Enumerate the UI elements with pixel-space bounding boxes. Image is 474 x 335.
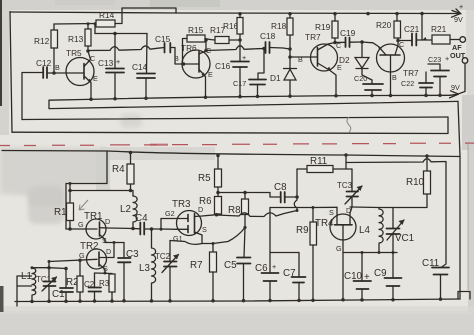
capacitor C23 <box>428 54 449 95</box>
wire C11 feed line with hop at R10 <box>346 159 446 268</box>
node collector TR5 <box>86 49 90 53</box>
wire drain net wavy <box>217 211 298 217</box>
node R15 tap <box>182 62 186 66</box>
svg-text:R16: R16 <box>223 21 239 31</box>
wire R5/R6 node to C8 <box>218 193 281 198</box>
svg-text:C5: C5 <box>224 260 237 271</box>
capacitor C20 <box>354 74 383 96</box>
capacitor C1 <box>52 267 73 303</box>
svg-text:D: D <box>346 206 351 215</box>
wire TR5 collector to C15 with hop-overs <box>88 46 165 51</box>
resistor R11 <box>297 156 352 173</box>
svg-text:R19: R19 <box>315 22 331 32</box>
capacitor C18 <box>260 31 290 53</box>
svg-text:R14: R14 <box>99 10 115 20</box>
resistor R12 <box>34 24 58 73</box>
svg-text:L4: L4 <box>359 225 370 236</box>
resistor R14 <box>96 10 122 27</box>
capacitor C10 <box>344 253 371 302</box>
resistor R8 <box>228 193 249 258</box>
wire top-sheet bottom border <box>12 117 448 134</box>
svg-text:D2: D2 <box>339 55 350 65</box>
svg-text:S: S <box>202 225 207 234</box>
svg-text:C19: C19 <box>340 28 356 38</box>
svg-text:R20: R20 <box>376 20 392 30</box>
svg-text:R3: R3 <box>99 279 110 288</box>
wire drain node to L4 VC1 R10 <box>352 206 399 209</box>
resistor R4 <box>112 151 134 193</box>
svg-text:TR5: TR5 <box>66 48 82 58</box>
resistor R10 <box>399 154 431 207</box>
svg-text:R8: R8 <box>228 205 241 216</box>
svg-text:E: E <box>93 74 98 83</box>
transistor TR6 <box>174 43 213 97</box>
red fold line <box>0 143 474 145</box>
pencil arrow mark <box>79 200 88 210</box>
svg-text:C20: C20 <box>354 74 367 83</box>
wire rail tap for R11 <box>345 155 347 169</box>
wire drain supply node <box>70 191 133 197</box>
resistor R5 <box>198 154 222 193</box>
svg-text:E: E <box>208 70 213 79</box>
capacitor C4 <box>133 213 177 235</box>
trimmer TC2 <box>155 241 179 303</box>
svg-text:C16: C16 <box>215 61 231 71</box>
svg-text:L3: L3 <box>139 263 150 274</box>
svg-text:D: D <box>106 247 111 256</box>
resistor R21 <box>431 24 460 44</box>
svg-text:R21: R21 <box>431 24 447 34</box>
wire right-side 0V drop <box>458 101 460 299</box>
svg-text:G: G <box>336 244 342 253</box>
svg-text:B: B <box>298 55 303 64</box>
resistor R13 <box>68 29 91 51</box>
transistor TR7 second <box>362 38 419 96</box>
wire supply detour over R14 <box>122 8 176 13</box>
svg-text:R13: R13 <box>68 34 84 44</box>
svg-text:TR7: TR7 <box>403 68 419 78</box>
wire bottom-sheet supply rail <box>2 151 460 157</box>
wire 0V line from C12 across sheet <box>22 117 448 120</box>
resistor R19 <box>315 12 338 44</box>
capacitor C9 <box>374 253 402 302</box>
diode D2 <box>339 42 372 80</box>
trimmer TC1 <box>36 266 57 303</box>
svg-text:R4: R4 <box>112 164 125 175</box>
capacitor C14 <box>132 34 155 99</box>
capacitor C22 <box>401 72 433 95</box>
svg-text:C18: C18 <box>260 31 276 41</box>
transistor TR5 <box>55 48 98 99</box>
transistor TR1 <box>78 211 133 245</box>
svg-text:G: G <box>79 251 85 260</box>
resistor R20 <box>376 12 401 38</box>
diode D1 <box>270 57 297 96</box>
capacitor C8 <box>274 182 297 203</box>
bus junction dots <box>89 12 442 101</box>
capacitor C21 <box>396 24 432 46</box>
transistor TR4 <box>315 206 356 302</box>
svg-text:R6: R6 <box>199 196 212 207</box>
wire R11 drop to source net with hop <box>294 169 297 211</box>
node L3 tap <box>150 227 154 231</box>
aerial lead and coupling bracket <box>17 276 32 306</box>
wire G2 drop <box>161 219 177 230</box>
capacitor C13 <box>98 34 124 99</box>
inductor L2 <box>120 196 137 229</box>
svg-text:TC2: TC2 <box>155 252 171 261</box>
resistor R17 <box>210 25 240 44</box>
wire antenna feed step <box>66 151 107 229</box>
svg-text:+: + <box>459 2 463 11</box>
resistor R6 <box>199 191 222 217</box>
wire gate TR2 feed <box>49 259 97 267</box>
inductor L3 <box>139 229 156 303</box>
svg-text:TR3: TR3 <box>172 199 191 210</box>
wire C13/C14 feed <box>95 33 147 35</box>
AF OUT terminals <box>450 37 468 94</box>
node base TR5 <box>52 71 56 75</box>
capacitor C5 <box>224 258 251 303</box>
svg-text:R7: R7 <box>190 260 203 271</box>
svg-text:C13: C13 <box>98 58 114 68</box>
wire supply drop to C21/R21 <box>421 14 423 41</box>
wire C6/C7 tie <box>270 208 299 253</box>
wire base TR7 <box>290 56 318 58</box>
resistor R9 <box>296 208 317 303</box>
wire source line TR4 <box>270 206 337 208</box>
svg-text:R9: R9 <box>296 225 309 236</box>
transistor TR7 first <box>298 32 342 96</box>
node D2 top <box>360 40 364 44</box>
svg-text:G: G <box>78 220 84 229</box>
0V 9V arrow right <box>450 91 459 98</box>
trimmer TC3 <box>337 169 363 207</box>
sheet edge right <box>467 142 469 290</box>
svg-text:B: B <box>55 63 60 72</box>
capacitor C17 <box>233 47 266 97</box>
svg-text:C23: C23 <box>428 55 441 64</box>
svg-text:+: + <box>272 262 276 271</box>
transistor TR2 <box>79 241 114 273</box>
svg-text:B: B <box>174 54 179 63</box>
inductor L1 <box>21 266 66 303</box>
capacitor C16 <box>215 53 249 97</box>
capacitor C7 <box>283 253 306 303</box>
svg-text:R12: R12 <box>34 36 50 46</box>
svg-text:L1: L1 <box>21 271 32 282</box>
svg-text:C4: C4 <box>135 213 148 224</box>
svg-text:C15: C15 <box>155 34 171 44</box>
wire rail end hook <box>458 292 470 300</box>
svg-text:TR4: TR4 <box>315 218 334 229</box>
resistor R1 <box>54 182 74 231</box>
node L2/TR1 drain/C4 <box>131 227 135 231</box>
capacitor C12 <box>22 58 66 120</box>
variable capacitor VC1 <box>387 208 415 253</box>
svg-text:C14: C14 <box>132 62 148 72</box>
svg-text:C17: C17 <box>233 79 246 88</box>
node TR6 collector <box>205 40 207 51</box>
wire TR6 collector to C18 with hop-over <box>206 46 264 51</box>
wire TR1 source to TR2 drain and C3 <box>105 242 124 244</box>
wire R12/R13/R14 top <box>54 24 96 34</box>
ground rail bottom <box>15 299 460 302</box>
svg-text:C1: C1 <box>52 289 65 300</box>
wire TR2 source bias <box>95 272 113 275</box>
resistor R18 <box>271 12 293 57</box>
resistor R3 <box>99 274 115 303</box>
svg-text:R15: R15 <box>188 25 204 35</box>
svg-text:S: S <box>102 236 107 245</box>
svg-text:C: C <box>399 40 404 49</box>
svg-text:C: C <box>90 54 95 63</box>
svg-text:9V: 9V <box>451 83 460 92</box>
inductor L4 <box>359 208 383 253</box>
capacitor C11 <box>422 258 449 301</box>
capacitor C19 <box>335 28 362 47</box>
wire gate TR1 <box>66 228 97 230</box>
svg-text:D: D <box>105 217 110 226</box>
resistor R2 <box>66 258 83 302</box>
svg-text:R10: R10 <box>406 177 425 188</box>
ground bus bar <box>49 95 458 108</box>
paper wrinkle mark <box>347 117 351 133</box>
svg-text:+: + <box>116 57 120 66</box>
svg-text:S: S <box>329 208 334 217</box>
svg-text:D1: D1 <box>270 73 281 83</box>
resistor R16 <box>223 12 243 61</box>
svg-text:R5: R5 <box>198 173 211 184</box>
capacitor C6 <box>255 253 279 303</box>
wire source net wavy <box>170 228 245 245</box>
capacitor C2 <box>84 273 101 303</box>
svg-text:TC3: TC3 <box>337 181 353 190</box>
svg-text:+: + <box>445 54 449 63</box>
capacitor C3 <box>118 243 139 303</box>
node TR7 base <box>288 47 292 51</box>
svg-text:C22: C22 <box>401 79 414 88</box>
svg-text:B: B <box>392 73 397 82</box>
wire L4/VC1 bottom tie <box>343 252 397 254</box>
+9V supply rail along top <box>10 12 459 14</box>
svg-text:9V: 9V <box>454 15 463 24</box>
svg-text:R1: R1 <box>54 207 67 218</box>
top sheet border left edge <box>10 12 12 133</box>
svg-text:C21: C21 <box>404 24 420 34</box>
transistor TR3 <box>165 199 215 244</box>
svg-text:L2: L2 <box>120 204 131 215</box>
resistor R7 <box>190 244 217 303</box>
svg-text:TR7: TR7 <box>305 32 321 42</box>
resistor R15 <box>183 25 211 64</box>
capacitor C15 <box>155 34 184 64</box>
svg-text:R18: R18 <box>271 21 287 31</box>
+9V arrow <box>452 9 462 17</box>
svg-text:G2: G2 <box>165 209 175 218</box>
